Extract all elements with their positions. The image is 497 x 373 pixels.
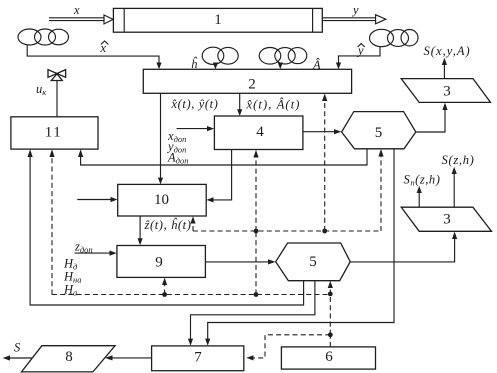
svg-text:4: 4 [256, 124, 264, 140]
block 4 [214, 116, 303, 150]
wire block7 to block8 [105, 355, 152, 360]
svg-text:9: 9 [155, 255, 163, 271]
op hexagon 5 lower [276, 243, 351, 281]
dashed riser x256 [255, 231, 257, 295]
noise source circles A [259, 48, 307, 65]
feedback wire hex5lower to block7 [188, 281, 315, 346]
svg-text:S(z,h): S(z,h) [442, 153, 475, 167]
junction dot [254, 229, 259, 234]
svg-text:S: S [14, 341, 21, 355]
wire A-hat [278, 58, 321, 72]
svg-text:y: y [351, 3, 359, 17]
junction dot [162, 292, 167, 297]
dashed arrow into block11 [49, 149, 54, 294]
svg-text:1: 1 [214, 12, 222, 28]
svg-text:x̂(t), Â(t): x̂(t), Â(t) [246, 98, 301, 112]
junction dot [328, 292, 333, 297]
svg-text:5: 5 [309, 254, 317, 270]
feedback wire hex5lower to block11 [28, 149, 304, 305]
wire block2 to block10 [158, 93, 163, 184]
dashed arrow into block4 [253, 150, 258, 231]
dashed arrow into block9 [162, 278, 167, 295]
svg-text:x: x [73, 3, 80, 17]
svg-text:3: 3 [443, 212, 451, 228]
svg-text:8: 8 [65, 349, 73, 365]
noise source circles right [370, 29, 419, 46]
op hexagon 5 upper [342, 112, 416, 149]
wire block4 to block10 right [206, 150, 231, 203]
dashed arrow into hex5upper [378, 149, 383, 231]
wire block2 to block4 [237, 93, 242, 116]
block 6 [281, 347, 375, 369]
label x(t),A(t) [246, 98, 301, 112]
wire block10 to block9 [138, 216, 143, 245]
svg-text:3: 3 [443, 84, 451, 100]
wire hex5lower to parallelogram3 bottom [350, 232, 457, 262]
svg-text:x̂(t), ŷ(t): x̂(t), ŷ(t) [171, 97, 219, 111]
svg-text:S(x,y,A): S(x,y,A) [424, 44, 471, 58]
noise source circles left [18, 29, 69, 45]
wire 3 to Sn(z,h) [404, 173, 441, 208]
dashed arrow into block10 [190, 216, 195, 231]
block 1 [113, 8, 322, 32]
wire h-hat [191, 57, 218, 71]
dashed net from block6 [329, 336, 331, 347]
parallelogram 8 [22, 346, 116, 372]
wire block4 to hex5 [303, 129, 342, 134]
label xdop ydop Adop [166, 129, 188, 166]
block 7 [152, 346, 244, 371]
dashed arrow into block2 [322, 94, 327, 232]
wire block8 to S [3, 341, 33, 361]
input arrow x [49, 3, 113, 24]
block 9 [117, 246, 205, 278]
wire zdop into block9 [74, 240, 117, 256]
dashed horizontal y231 [193, 230, 381, 232]
parallelogram 3 top [401, 79, 490, 103]
svg-text:7: 7 [194, 350, 202, 366]
wire x-hat [27, 41, 161, 69]
dashed horizontal y294 [52, 294, 330, 296]
label z(t),h(t) [144, 218, 192, 232]
junction dot [328, 332, 333, 337]
labels H [63, 257, 82, 298]
wire block9 to hex5 lower [205, 259, 275, 264]
wire hex5 to parallelogram3 top [416, 103, 448, 132]
feedback wire hex5upper to block7 [205, 149, 394, 346]
block 10 [118, 184, 207, 216]
svg-text:10: 10 [154, 192, 169, 208]
valve u_k [36, 70, 66, 117]
svg-text:2: 2 [248, 77, 256, 93]
svg-text:11: 11 [45, 125, 62, 141]
svg-text:Sn(z,h): Sn(z,h) [404, 173, 441, 188]
block 2 [143, 69, 351, 93]
dashed wire to block7 right [246, 335, 330, 361]
arrow into block10 left [77, 197, 117, 202]
block 11 [11, 117, 98, 149]
junction dot [254, 292, 259, 297]
svg-text:ẑ(t), ĥ(t): ẑ(t), ĥ(t) [144, 218, 192, 232]
junction dot [322, 229, 327, 234]
output arrow y [322, 3, 386, 24]
wire xdop into block4 [177, 126, 215, 131]
label x(t),y(t) [171, 97, 219, 111]
dashed arrow into hex5lower [328, 281, 333, 295]
wire 3 to S(x,y,A) [424, 44, 471, 79]
dashed riser block6 to hex5lower [329, 296, 331, 335]
wire y-hat [336, 44, 380, 70]
svg-text:5: 5 [375, 125, 383, 141]
svg-text:6: 6 [325, 349, 333, 365]
feedback wire hex5upper to block11 [78, 149, 367, 165]
wire 3 to S(z,h) [442, 153, 475, 207]
parallelogram 3 bottom [401, 207, 491, 231]
noise source circles h [202, 47, 238, 64]
